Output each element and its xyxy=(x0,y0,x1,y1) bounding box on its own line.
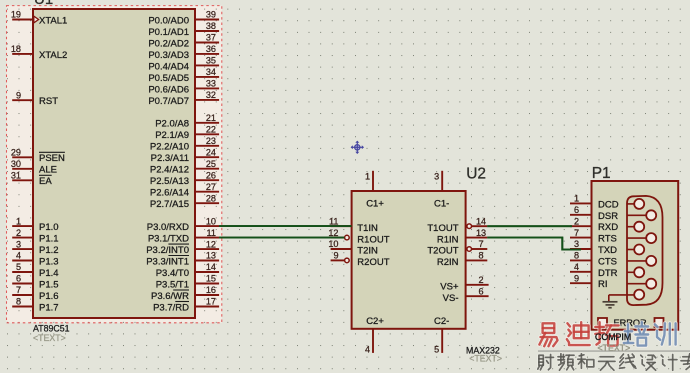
U1 pin 36 P0.3/AD3 xyxy=(148,44,219,61)
svg-text:P2.1/A9: P2.1/A9 xyxy=(155,130,189,141)
svg-text:R2OUT: R2OUT xyxy=(357,257,389,268)
wire U2.T1OUT to P1.RXD xyxy=(487,225,572,227)
svg-text:2: 2 xyxy=(574,216,579,226)
U1 pin 37 P0.2/AD2 xyxy=(148,33,219,50)
svg-text:U1: U1 xyxy=(34,0,53,8)
P1 pin 9 RI xyxy=(570,273,608,290)
svg-text:T1IN: T1IN xyxy=(357,223,378,234)
svg-text:P3.2/INT0: P3.2/INT0 xyxy=(146,245,189,256)
svg-text:P1.0: P1.0 xyxy=(39,222,59,233)
svg-text:PSEN: PSEN xyxy=(39,153,65,164)
svg-text:2: 2 xyxy=(16,228,21,238)
svg-text:P0.2/AD2: P0.2/AD2 xyxy=(148,38,189,49)
U2 pin 5 C2- xyxy=(434,316,449,354)
P1 DB9 pin circle R4 xyxy=(627,279,656,289)
svg-text:U2: U2 xyxy=(466,166,486,183)
svg-text:29: 29 xyxy=(11,148,21,158)
svg-text:COMPIM: COMPIM xyxy=(595,332,631,342)
svg-text:P1.4: P1.4 xyxy=(39,268,59,279)
svg-text:27: 27 xyxy=(206,182,216,192)
U1 pin 18 XTAL2 xyxy=(11,44,67,61)
svg-text:P3.7/RD: P3.7/RD xyxy=(153,302,189,313)
svg-text:3: 3 xyxy=(434,172,439,182)
svg-text:CTS: CTS xyxy=(598,256,617,267)
svg-text:P3.5/T1: P3.5/T1 xyxy=(156,279,189,290)
svg-text:P1.3: P1.3 xyxy=(39,256,59,267)
svg-text:P3.6/WR: P3.6/WR xyxy=(151,291,189,302)
svg-text:5: 5 xyxy=(434,344,439,354)
U2 pin 3 C1- xyxy=(434,171,449,210)
U2 pin 10 T2IN xyxy=(328,239,378,257)
U1 pin 17 P3.7/RD xyxy=(153,297,219,314)
wire U1.P3.1 to U2.R1OUT xyxy=(219,237,345,239)
P1 DB9 pin circle L5 xyxy=(634,290,644,300)
U2 pin 14 T1OUT (inverting bubble) xyxy=(427,216,487,234)
svg-text:RI: RI xyxy=(598,279,608,290)
U1 pin 24 P2.3/A11 xyxy=(151,147,219,164)
U2 pin 12 R1OUT (inverting bubble) xyxy=(328,228,389,246)
svg-text:TXD: TXD xyxy=(598,245,617,256)
svg-text:P1.1: P1.1 xyxy=(39,234,59,245)
U1 pin 28 P2.7/A15 xyxy=(150,193,219,210)
P1 ERROR indicator right square xyxy=(655,318,664,327)
svg-text:<TEXT>: <TEXT> xyxy=(33,333,66,343)
svg-text:P2.7/A15: P2.7/A15 xyxy=(150,199,189,210)
svg-text:12: 12 xyxy=(328,228,338,238)
svg-text:T2OUT: T2OUT xyxy=(427,246,458,257)
P1 pin 1 DCD xyxy=(570,194,619,211)
U1 pin 13 P3.3/INT1 xyxy=(146,251,219,268)
svg-text:18: 18 xyxy=(11,44,21,54)
svg-text:13: 13 xyxy=(206,251,216,261)
IC U2 MAX232 body xyxy=(352,191,466,329)
U1 value label AT89C51 xyxy=(33,324,70,334)
U1 pin 7 P1.6 xyxy=(12,285,58,302)
svg-text:4: 4 xyxy=(574,262,579,272)
wire U1.P3.0 to U2.T1IN xyxy=(219,225,352,227)
P1 text placeholder xyxy=(598,343,631,353)
U1 pin 32 P0.7/AD7 xyxy=(148,90,219,107)
wire overdraw U2.R1IN to P1.TXD xyxy=(487,238,581,250)
U1 pin 6 P1.5 xyxy=(12,274,58,291)
svg-text:T1OUT: T1OUT xyxy=(427,223,458,234)
U1 pin 33 P0.6/AD6 xyxy=(148,79,219,96)
U2 pin 4 C2+ xyxy=(365,316,384,354)
svg-text:10: 10 xyxy=(206,216,216,226)
svg-text:P0.3/AD3: P0.3/AD3 xyxy=(148,50,189,61)
U1 pin 15 P3.5/T1 xyxy=(156,274,219,291)
P1 text placeholder (over watermark) xyxy=(598,343,631,353)
U1 pin 39 P0.0/AD0 xyxy=(148,10,219,27)
svg-text:26: 26 xyxy=(206,170,216,180)
U2 pin 11 T1IN xyxy=(329,216,378,234)
svg-text:11: 11 xyxy=(329,216,338,226)
U1 pin 38 P0.1/AD1 xyxy=(148,21,219,38)
P1 DB9 pin circle R3 xyxy=(627,256,656,266)
svg-text:8: 8 xyxy=(478,251,483,261)
svg-text:P1.2: P1.2 xyxy=(39,245,59,256)
svg-text:P0.5/AD5: P0.5/AD5 xyxy=(148,73,189,84)
U1 pin 3 P1.2 xyxy=(12,239,58,256)
watermark underline xyxy=(538,350,690,352)
svg-text:<TEXT>: <TEXT> xyxy=(469,354,502,364)
svg-text:C2-: C2- xyxy=(434,316,449,327)
svg-text:P2.3/A11: P2.3/A11 xyxy=(151,153,189,164)
U1 pin 1 P1.0 xyxy=(12,216,58,233)
P1 pin 3 TXD xyxy=(570,239,617,256)
svg-text:22: 22 xyxy=(206,125,216,135)
svg-text:XTAL2: XTAL2 xyxy=(39,50,67,61)
svg-text:11: 11 xyxy=(207,228,216,238)
svg-text:P2.5/A13: P2.5/A13 xyxy=(150,176,189,187)
svg-text:P1.5: P1.5 xyxy=(39,279,59,290)
watermark row 1 xyxy=(539,322,675,346)
U1 pin 21 P2.0/A8 xyxy=(155,113,219,130)
P1 value label COMPIM (over watermark) xyxy=(595,332,631,342)
P1 pin 6 DSR xyxy=(570,205,618,222)
label P1 xyxy=(592,165,611,182)
svg-text:P1.7: P1.7 xyxy=(39,302,59,313)
U2 text placeholder xyxy=(469,354,502,364)
label U2 xyxy=(466,166,486,183)
svg-text:DTR: DTR xyxy=(598,268,618,279)
P1 DB9 pin circle L2 xyxy=(627,222,644,232)
U1 pin 2 P1.1 xyxy=(12,228,58,245)
label U1 xyxy=(34,0,53,8)
svg-text:15: 15 xyxy=(206,274,216,284)
svg-text:21: 21 xyxy=(206,113,216,123)
svg-text:12: 12 xyxy=(206,239,216,249)
U1 pin 31 EA xyxy=(11,171,52,188)
U2 pin 2 VS+ xyxy=(440,275,488,293)
selection highlight area around U1 xyxy=(7,6,222,323)
svg-text:C1-: C1- xyxy=(434,198,449,209)
svg-text:P3.4/T0: P3.4/T0 xyxy=(156,268,189,279)
svg-text:24: 24 xyxy=(206,147,216,157)
U1 pin 5 P1.4 xyxy=(12,262,58,279)
U1 pin 29 PSEN xyxy=(11,148,65,165)
U2 pin 6 VS- xyxy=(443,286,489,304)
svg-text:7: 7 xyxy=(574,228,579,238)
U1 pin 26 P2.5/A13 xyxy=(150,170,219,187)
svg-text:P2.2/A10: P2.2/A10 xyxy=(150,142,189,153)
svg-text:P1.6: P1.6 xyxy=(39,291,59,302)
svg-text:13: 13 xyxy=(476,228,486,238)
svg-text:P2.0/A8: P2.0/A8 xyxy=(155,119,189,130)
IC U1 AT89C51 body xyxy=(33,9,195,318)
U1 pin 27 P2.6/A14 xyxy=(150,182,219,199)
svg-text:1: 1 xyxy=(16,216,21,226)
svg-text:6: 6 xyxy=(478,286,483,296)
svg-text:10: 10 xyxy=(328,239,338,249)
svg-text:P0.0/AD0: P0.0/AD0 xyxy=(148,15,189,26)
svg-text:39: 39 xyxy=(206,10,216,20)
svg-text:1: 1 xyxy=(365,172,370,182)
svg-text:P0.1/AD1: P0.1/AD1 xyxy=(148,27,189,38)
svg-text:23: 23 xyxy=(206,136,216,146)
P1 ERROR indicator left square xyxy=(598,318,607,327)
P1 pin 2 RXD xyxy=(570,216,618,233)
wire overdraw U2.T1OUT to P1.RXD xyxy=(487,225,572,227)
svg-text:P2.6/A14: P2.6/A14 xyxy=(150,188,189,199)
svg-text:P0.6/AD6: P0.6/AD6 xyxy=(148,84,189,95)
svg-text:7: 7 xyxy=(16,285,21,295)
U2 pin 8 R2IN xyxy=(437,251,487,269)
svg-text:32: 32 xyxy=(206,90,216,100)
svg-text:19: 19 xyxy=(11,10,21,20)
svg-text:25: 25 xyxy=(206,159,216,169)
P1 pin 4 DTR xyxy=(570,262,618,279)
svg-text:P0.7/AD7: P0.7/AD7 xyxy=(148,96,189,107)
svg-text:16: 16 xyxy=(206,285,216,295)
svg-text:9: 9 xyxy=(574,273,579,283)
svg-text:2: 2 xyxy=(478,275,483,285)
svg-text:14: 14 xyxy=(476,216,486,226)
watermark row 2 xyxy=(538,354,690,370)
U1 pin 23 P2.2/A10 xyxy=(150,136,219,153)
svg-text:3: 3 xyxy=(574,239,579,249)
svg-text:35: 35 xyxy=(206,56,216,66)
U1 pin 35 P0.4/AD4 xyxy=(148,56,219,73)
svg-text:8: 8 xyxy=(574,251,579,261)
svg-text:R1OUT: R1OUT xyxy=(357,234,389,245)
svg-text:P0.4/AD4: P0.4/AD4 xyxy=(148,61,189,72)
selection dashed box around U1 xyxy=(7,6,222,323)
svg-text:36: 36 xyxy=(206,44,216,54)
svg-text:9: 9 xyxy=(16,90,21,100)
U2 value label MAX232 xyxy=(466,345,500,355)
svg-text:4: 4 xyxy=(365,344,370,354)
connector P1 COMPIM body xyxy=(592,181,679,330)
svg-text:28: 28 xyxy=(206,193,216,203)
svg-text:P2.4/A12: P2.4/A12 xyxy=(150,165,189,176)
P1 ERROR label xyxy=(614,318,648,328)
U1 pin 9 RST xyxy=(12,90,58,107)
svg-text:VS-: VS- xyxy=(443,293,459,304)
U1 pin 30 ALE xyxy=(11,159,57,176)
svg-text:3: 3 xyxy=(16,239,21,249)
svg-text:RXD: RXD xyxy=(598,222,618,233)
svg-text:C1+: C1+ xyxy=(366,198,384,209)
svg-text:RTS: RTS xyxy=(598,234,617,245)
svg-text:7: 7 xyxy=(478,239,483,249)
wire U2.R1IN to P1.TXD (with jog) xyxy=(487,238,581,250)
svg-text:9: 9 xyxy=(333,251,338,261)
svg-text:R1IN: R1IN xyxy=(437,234,459,245)
P1 pin 7 RTS xyxy=(570,228,617,245)
svg-text:DCD: DCD xyxy=(598,199,619,210)
P1 DB9 connector outline xyxy=(627,196,663,305)
P1 shell wire to ground xyxy=(609,295,634,301)
U2 pin 1 C1+ xyxy=(365,171,384,210)
svg-text:AT89C51: AT89C51 xyxy=(33,324,70,334)
svg-text:P3.1/TXD: P3.1/TXD xyxy=(148,234,189,245)
P1 DB9 pin circle R2 xyxy=(627,233,656,243)
svg-text:37: 37 xyxy=(206,33,216,43)
svg-text:RST: RST xyxy=(39,96,58,107)
wire overdraw U1.P3.0 to U2.T1IN xyxy=(219,225,352,227)
svg-text:31: 31 xyxy=(11,171,21,181)
svg-text:DSR: DSR xyxy=(598,211,618,222)
svg-text:4: 4 xyxy=(16,251,21,261)
P1 DB9 pin circle L3 xyxy=(627,245,644,255)
P1 DB9 pin circle L1 xyxy=(627,199,644,209)
svg-text:14: 14 xyxy=(206,262,216,272)
P1 pin 8 CTS xyxy=(570,251,617,268)
svg-text:6: 6 xyxy=(574,205,579,215)
svg-text:T2IN: T2IN xyxy=(357,246,378,257)
svg-text:30: 30 xyxy=(11,159,21,169)
U2 pin 9 R2OUT (inverting bubble) xyxy=(331,251,390,269)
P1 DB9 pin circle L4 xyxy=(627,267,644,277)
U1 pin 11 P3.1/TXD xyxy=(148,228,219,245)
wire overdraw U1.P3.1 to U2.R1OUT xyxy=(219,237,344,239)
U1 pin 34 P0.5/AD5 xyxy=(148,67,219,84)
U1 text placeholder xyxy=(33,333,66,343)
ground symbol xyxy=(603,302,618,308)
P1 value label COMPIM xyxy=(595,332,631,342)
U2 pin 13 R1IN xyxy=(437,228,487,246)
svg-text:38: 38 xyxy=(206,21,216,31)
svg-text:17: 17 xyxy=(206,297,216,307)
U1 pin 4 P1.3 xyxy=(12,251,58,268)
svg-text:C2+: C2+ xyxy=(366,316,384,327)
svg-text:P3.0/RXD: P3.0/RXD xyxy=(147,222,189,233)
svg-text:6: 6 xyxy=(16,274,21,284)
U1 pin 8 P1.7 xyxy=(12,297,58,314)
U1 pin 16 P3.6/WR xyxy=(151,285,219,302)
svg-text:P3.3/INT1: P3.3/INT1 xyxy=(146,256,189,267)
U1 pin 10 P3.0/RXD xyxy=(147,216,219,233)
U1 pin 12 P3.2/INT0 xyxy=(146,239,219,256)
P1 DB9 pin circle R1 xyxy=(627,210,656,220)
U1 pin 19 XTAL1 xyxy=(11,10,67,27)
svg-text:R2IN: R2IN xyxy=(437,257,459,268)
svg-text:5: 5 xyxy=(16,262,21,272)
svg-text:ALE: ALE xyxy=(39,165,57,176)
schematic origin marker xyxy=(351,141,364,154)
svg-text:XTAL1: XTAL1 xyxy=(39,15,67,26)
U1 pin 25 P2.4/A12 xyxy=(150,159,219,176)
svg-text:<TEXT>: <TEXT> xyxy=(598,343,631,353)
svg-text:VS+: VS+ xyxy=(440,282,459,293)
U1 pin 14 P3.4/T0 xyxy=(156,262,219,279)
svg-text:1: 1 xyxy=(574,194,579,204)
svg-text:33: 33 xyxy=(206,79,216,89)
U2 pin 7 T2OUT (inverting bubble) xyxy=(427,239,487,257)
svg-text:P1: P1 xyxy=(592,165,611,182)
U1 pin 22 P2.1/A9 xyxy=(155,125,219,142)
svg-text:8: 8 xyxy=(16,297,21,307)
svg-text:EA: EA xyxy=(39,176,52,187)
svg-text:34: 34 xyxy=(206,67,216,77)
